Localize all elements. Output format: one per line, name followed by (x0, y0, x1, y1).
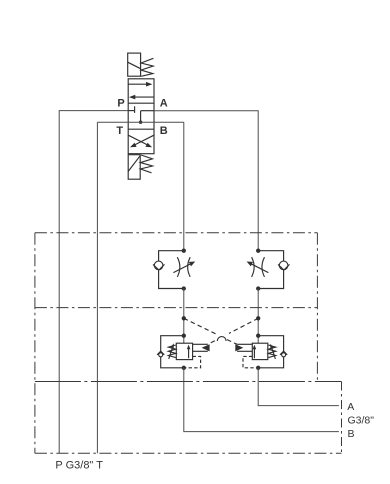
spring bottom (140, 155, 152, 173)
wire T-B horizontal through valve (97, 121, 183, 123)
node pilot tap left (182, 316, 186, 320)
counterbalance left pilot port (193, 344, 210, 351)
check valve of left flow control (153, 261, 165, 270)
node right cb loop top (256, 334, 260, 338)
node left cb loop bottom (182, 366, 186, 370)
check valve of right flow control (278, 261, 290, 270)
svg-text:B: B (348, 428, 355, 440)
wire A mid (257, 289, 259, 344)
valve cell1 arrow right (128, 82, 152, 87)
solenoid bottom (128, 155, 140, 180)
valve cell1 arrow left (129, 95, 154, 100)
flow control right bypass loop (258, 251, 283, 289)
node pilot tap right (256, 316, 260, 320)
throttle right (variable restrictor) (247, 257, 269, 277)
node B flow-control bottom (182, 286, 186, 290)
valve cell3 cross arrow B (128, 135, 152, 147)
counterbalance right pilot port (235, 344, 252, 351)
svg-text:P G3/8" T: P G3/8" T (55, 460, 103, 472)
counterbalance right body (252, 343, 267, 359)
counterbalance left drain (dashed) (185, 356, 201, 367)
pilot line right-to-left (dashed) (229, 318, 258, 333)
wire B mid (183, 289, 185, 344)
svg-text:A: A (347, 401, 354, 413)
wire A (154, 111, 258, 249)
flow control left bypass loop (159, 251, 184, 289)
pilot crossing hop (217, 337, 226, 341)
counterbalance right flow arrow (253, 345, 257, 359)
node A flow-control top (256, 249, 260, 253)
node B flow-control top (182, 249, 186, 253)
spring top (141, 58, 153, 76)
node right cb loop bottom (256, 366, 260, 370)
svg-text:P: P (117, 97, 124, 109)
node left cb loop top (182, 334, 186, 338)
wire A to port (258, 368, 339, 406)
svg-text:T: T (116, 125, 123, 137)
counterbalance right check loop (258, 336, 283, 368)
counterbalance left flow arrow (187, 345, 191, 359)
wire B to port (184, 368, 339, 432)
svg-text:G3/8": G3/8" (348, 414, 375, 426)
counterbalance left body (176, 343, 192, 359)
valve cell2 A-to-tank path (139, 111, 154, 124)
check valve of right counterbalance (280, 351, 287, 357)
node A flow-control bottom (256, 286, 260, 290)
solenoid top (128, 53, 141, 76)
counterbalance left check loop (161, 336, 184, 368)
wire T vertical (96, 122, 98, 453)
counterbalance right spring (adjustable) (268, 344, 275, 359)
counterbalance left spring (adjustable) (168, 343, 175, 359)
valve cell3 cross arrow A (130, 135, 154, 147)
svg-text:B: B (160, 125, 168, 137)
manifold boundary (dash-dot) (35, 233, 342, 454)
svg-text:A: A (160, 97, 168, 109)
counterbalance right drain (dashed) (243, 356, 257, 367)
wire P (59, 111, 128, 454)
pilot line left-to-right (dashed) (184, 318, 216, 334)
throttle left (variable restrictor) (173, 257, 195, 277)
valve body (128, 79, 154, 154)
check valve of left counterbalance (157, 351, 164, 357)
valve cell2 blocked P stub (128, 106, 134, 113)
wire B vertical (183, 122, 185, 249)
